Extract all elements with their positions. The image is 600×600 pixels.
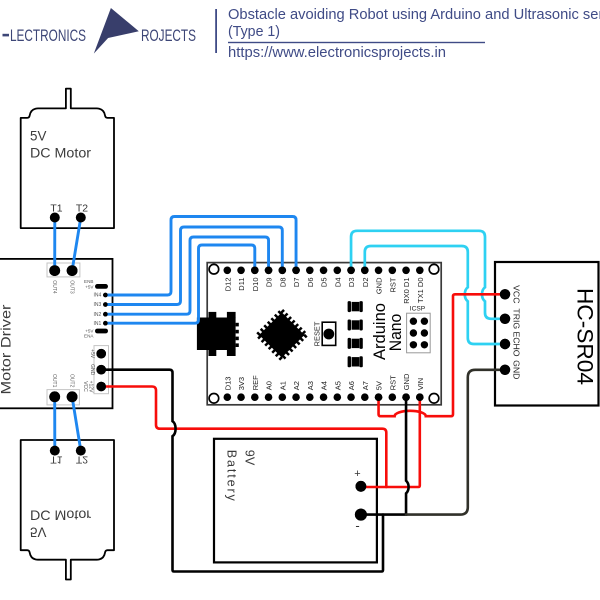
- nano pin bottom A2: [292, 393, 300, 401]
- driver pad VCC overlay: [96, 382, 106, 392]
- svg-text:ICSP: ICSP: [410, 306, 426, 313]
- wire nano 5V to sr04 VCC (red, hops): [379, 294, 505, 416]
- nano smd part 3: [348, 338, 363, 349]
- driver pad GND: [96, 365, 106, 375]
- pin overlays: [49, 213, 510, 521]
- battery plus terminal overlay: [356, 481, 367, 492]
- svg-text:IN3: IN3: [94, 302, 102, 308]
- wire driver GND loop to battery minus (black): [101, 370, 383, 572]
- driver pad GND overlay: [96, 365, 106, 375]
- svg-text:DC Motor: DC Motor: [30, 146, 92, 161]
- nano mounting hole top-right: [429, 264, 439, 274]
- svg-text:(Type 1): (Type 1): [228, 23, 280, 40]
- svg-text:9V: 9V: [242, 450, 256, 466]
- wire nano GND to battery minus (black, hop over red): [361, 397, 409, 514]
- svg-text:D3: D3: [347, 278, 356, 288]
- battery plus terminal: [356, 481, 367, 492]
- nano mounting hole bottom-right: [429, 394, 439, 404]
- svg-text:A0: A0: [265, 381, 274, 390]
- driver pad OUT4: [49, 265, 60, 276]
- svg-text:+12V: +12V: [88, 381, 94, 393]
- nano top pin row: [223, 267, 425, 304]
- nano pin top D2: [361, 267, 369, 275]
- nano pin D10 overlay: [251, 267, 259, 275]
- svg-text:D8: D8: [278, 278, 287, 288]
- svg-text:GND: GND: [375, 277, 384, 294]
- svg-text:A4: A4: [320, 381, 329, 390]
- nano pin D7 overlay: [292, 267, 300, 275]
- svg-text:OUT2: OUT2: [68, 374, 74, 388]
- motor M2 body (rotated 180): [21, 440, 114, 580]
- svg-text:RST: RST: [388, 375, 397, 390]
- nano pin top D11: [237, 267, 245, 275]
- svg-text:D10: D10: [251, 278, 260, 292]
- svg-text:3V3: 3V3: [237, 377, 246, 390]
- nano bottom pin row: [223, 373, 425, 401]
- svg-text:ROJECTS: ROJECTS: [141, 27, 196, 45]
- nano pin top D12: [224, 267, 232, 275]
- driver pad OUT3: [67, 265, 78, 276]
- wire driver VCC to battery plus (red, hop over black): [101, 387, 386, 488]
- svg-text:OUT4: OUT4: [51, 280, 57, 294]
- sr04 pin ECHO overlay: [500, 339, 510, 349]
- driver jumper ENA: [95, 329, 108, 334]
- nano pin top D3: [347, 267, 355, 275]
- wire driver OUT2 to M2.T2 (blue): [72, 397, 81, 451]
- motor driver board: [0, 259, 113, 408]
- svg-text:RX0 D1: RX0 D1: [402, 278, 411, 304]
- hc-sr04 board: [495, 262, 599, 406]
- wire driver IN2 to nano D9 (blue): [105, 237, 268, 314]
- svg-text:+: +: [354, 468, 360, 480]
- svg-text:5V: 5V: [30, 129, 46, 144]
- nano pin bottom A3: [306, 393, 314, 401]
- battery minus terminal: [355, 509, 367, 521]
- nano pin bottom 5V: [375, 393, 383, 401]
- svg-text:Obstacle avoiding Robot using: Obstacle avoiding Robot using Arduino an…: [228, 6, 600, 23]
- nano pin top D4: [334, 267, 342, 275]
- driver OUT1/OUT2 pad box: [47, 390, 79, 405]
- battery BT1 body: [214, 439, 377, 563]
- driver pad +5V overlay: [96, 349, 106, 359]
- svg-text:D9: D9: [265, 278, 274, 288]
- motor M1 pad T2: [76, 213, 86, 223]
- nano pin D2 overlay: [361, 267, 369, 275]
- svg-text:A6: A6: [347, 381, 356, 390]
- nano pin D9 overlay: [265, 267, 273, 275]
- nano pin bottom 3V3: [237, 393, 245, 401]
- wire driver IN1 to nano D10 (blue): [105, 245, 254, 323]
- svg-text:A5: A5: [333, 381, 342, 390]
- motor M2 pad T2: [76, 446, 86, 456]
- nano pin top GND: [375, 267, 383, 275]
- svg-text:ECHO: ECHO: [512, 331, 522, 356]
- driver pad VCC: [96, 382, 106, 392]
- driver OUT4/OUT3 pad box: [47, 263, 80, 277]
- wire driver IN4 to nano D7 (blue): [105, 217, 296, 296]
- nano mounting hole bottom-left: [209, 394, 219, 404]
- svg-text:GND: GND: [512, 360, 522, 379]
- svg-text:LECTRONICS: LECTRONICS: [10, 27, 86, 45]
- nano mcu chip (rotated QFP): [257, 310, 306, 359]
- svg-text:D13: D13: [223, 377, 232, 391]
- nano pin bottom RST: [389, 393, 397, 401]
- nano pin bottom A4: [320, 393, 328, 401]
- nano smd part 4: [348, 356, 363, 367]
- wire nano D3 to sr04 TRIG (cyan): [351, 231, 505, 319]
- title underline: [228, 42, 485, 43]
- wire nano D2 to sr04 ECHO (cyan): [365, 246, 505, 344]
- wire driver OUT1 to M2.T1 (blue): [53, 397, 56, 451]
- svg-text:Battery: Battery: [225, 450, 239, 502]
- wire battery plus to nano VIN (red): [361, 397, 420, 487]
- svg-text:IN1: IN1: [94, 321, 102, 327]
- motor M2 pad T1: [50, 446, 60, 456]
- sr04 pin GND overlay: [500, 365, 510, 375]
- driver power pad box: [94, 346, 109, 394]
- svg-text:DC Motor: DC Motor: [30, 508, 92, 523]
- nano reset button: [322, 322, 336, 345]
- driver pad +5V: [96, 349, 106, 359]
- svg-text:RESET: RESET: [313, 321, 322, 346]
- svg-text:IN2: IN2: [94, 312, 102, 318]
- svg-text:VIN: VIN: [416, 378, 425, 391]
- nano pin GND overlay: [402, 393, 410, 401]
- svg-text:GND: GND: [89, 364, 95, 376]
- svg-text:A2: A2: [292, 381, 301, 390]
- wire M1.T2 to driver OUT3 (blue): [72, 218, 81, 271]
- nano pin bottom VIN: [416, 393, 424, 401]
- nano pin top TX1 D0: [416, 267, 424, 275]
- driver pad OUT1 overlay: [49, 391, 60, 402]
- nano pin top D10: [251, 267, 259, 275]
- nano pin bottom A5: [334, 393, 342, 401]
- nano smd part 1: [348, 301, 363, 312]
- svg-text:VCC: VCC: [82, 381, 88, 392]
- svg-text:GND: GND: [402, 373, 411, 390]
- svg-text:+5V: +5V: [89, 349, 95, 359]
- nano mounting hole top-left: [209, 264, 219, 274]
- nano pin D3 overlay: [347, 267, 355, 275]
- wire driver IN3 to nano D8 (blue): [105, 227, 282, 305]
- driver pad OUT4 overlay: [49, 265, 60, 276]
- svg-text:A3: A3: [306, 381, 315, 390]
- svg-text:D2: D2: [361, 278, 370, 288]
- nano pin bottom A6: [347, 393, 355, 401]
- nano pin bottom GND: [402, 393, 410, 401]
- nano pin top RST: [389, 267, 397, 275]
- svg-text:OUT3: OUT3: [68, 280, 74, 294]
- nano pin D8 overlay: [279, 267, 287, 275]
- logo arrow: [94, 8, 139, 54]
- nano pin top D5: [320, 267, 328, 275]
- nano usb connector: [197, 318, 236, 351]
- motor M1 body: [21, 89, 114, 229]
- svg-text:OUT1: OUT1: [51, 374, 57, 388]
- nano pin bottom A7: [361, 393, 369, 401]
- svg-text:D6: D6: [306, 278, 315, 288]
- nano pin 5V overlay: [375, 393, 383, 401]
- nano pin bottom A1: [279, 393, 287, 401]
- svg-text:https://www.electronicsproject: https://www.electronicsprojects.in: [228, 44, 446, 61]
- nano smd part 2: [348, 320, 363, 331]
- driver pin IN1 overlay: [103, 321, 108, 326]
- nano pin VIN overlay: [416, 393, 424, 401]
- logo E fragment: [3, 34, 10, 37]
- nano pin bottom REF: [251, 393, 259, 401]
- nano pin top D6: [306, 267, 314, 275]
- svg-text:Nano: Nano: [387, 314, 405, 352]
- nano pin top RX0 D1: [402, 267, 410, 275]
- driver pin IN4 overlay: [103, 293, 108, 298]
- svg-text:5V: 5V: [375, 381, 384, 390]
- svg-text:D5: D5: [320, 278, 329, 288]
- nano icsp header: [407, 313, 431, 353]
- svg-text:IN4: IN4: [94, 293, 102, 299]
- svg-text:RST: RST: [388, 277, 397, 292]
- svg-text:5V: 5V: [30, 525, 46, 540]
- driver pad OUT3 overlay: [67, 265, 78, 276]
- driver pad OUT1: [49, 391, 60, 402]
- driver pad OUT2: [67, 391, 78, 402]
- svg-text:A1: A1: [278, 381, 287, 390]
- svg-text:Motor Driver: Motor Driver: [0, 304, 14, 394]
- battery minus terminal overlay: [355, 509, 367, 521]
- driver pad OUT2 overlay: [67, 391, 78, 402]
- motor M1 pad T1: [50, 213, 60, 223]
- svg-text:REF: REF: [251, 375, 260, 390]
- nano pin top D7: [292, 267, 300, 275]
- svg-text:+5V: +5V: [85, 284, 94, 289]
- svg-text:TRIG: TRIG: [512, 308, 522, 329]
- nano pin bottom A0: [265, 393, 273, 401]
- sr04 pin TRIG overlay: [500, 314, 510, 324]
- driver pin IN3 overlay: [103, 302, 108, 307]
- wire sr04 GND to ground net (dark olive): [406, 370, 505, 515]
- arduino nano board: [197, 263, 441, 405]
- svg-text:ENA: ENA: [84, 334, 94, 339]
- wire M1.T1 to driver OUT4 (blue): [53, 218, 56, 271]
- nano pin bottom D13: [224, 393, 232, 401]
- driver jumper ENB: [95, 284, 108, 289]
- driver pin IN2 overlay: [103, 312, 108, 317]
- header separator: [215, 9, 217, 53]
- nano pin top D8: [279, 267, 287, 275]
- svg-text:HC-SR04: HC-SR04: [572, 288, 597, 385]
- svg-text:VCC: VCC: [512, 285, 522, 303]
- svg-text:D12: D12: [223, 278, 232, 292]
- sr04 pin VCC overlay: [500, 289, 510, 299]
- svg-text:D11: D11: [237, 278, 246, 291]
- svg-text:D4: D4: [333, 278, 342, 288]
- svg-text:A7: A7: [361, 381, 370, 390]
- svg-text:TX1 D0: TX1 D0: [416, 278, 425, 303]
- nano pin top D9: [265, 267, 273, 275]
- svg-text:D7: D7: [292, 278, 301, 288]
